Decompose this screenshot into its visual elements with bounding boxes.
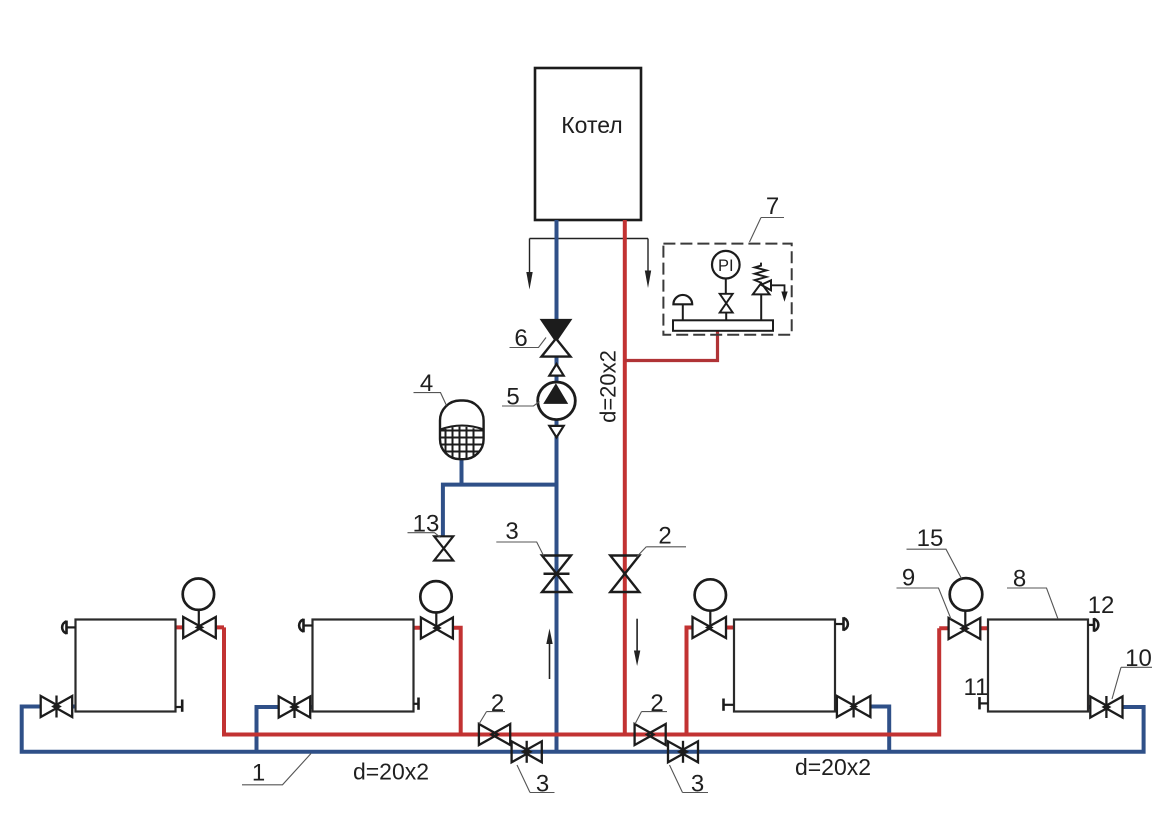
safety relief valve in box 7 bbox=[753, 263, 788, 321]
plug fitting 11 radiator4 (bottom left) bbox=[980, 697, 989, 709]
svg-text:Котел: Котел bbox=[561, 112, 622, 138]
flow arrow above pump bbox=[549, 364, 563, 376]
expansion tank 4 bbox=[440, 401, 484, 461]
label 15 bbox=[907, 525, 962, 579]
label 6 bbox=[510, 325, 547, 352]
thermostatic valve radiator1 bbox=[183, 610, 216, 639]
lockshield valve 10 on radiator4 bbox=[1090, 696, 1122, 718]
lockshield valve radiator2 bbox=[279, 696, 311, 718]
wire: red bottom manifold with end risers bbox=[224, 627, 939, 734]
valve 3 left on blue manifold bbox=[512, 741, 542, 763]
wire: blue return main from boiler down to bottom manifold bbox=[555, 220, 559, 752]
valve 2 right on red manifold bbox=[635, 724, 666, 745]
svg-text:2: 2 bbox=[491, 690, 504, 717]
wire: blue drop radiator2 bbox=[257, 707, 313, 752]
air vent fitting 12 radiator4 (top right) bbox=[1088, 618, 1098, 632]
label 3 top bbox=[496, 518, 543, 556]
plug fitting radiator3 (bottom left) bbox=[724, 699, 735, 711]
svg-text:1: 1 bbox=[252, 760, 265, 787]
lockshield valve radiator3 bbox=[837, 696, 871, 718]
radiator 3 bbox=[734, 620, 835, 712]
gauge cock (small vertical valve) in box 7 bbox=[720, 294, 733, 321]
wire: blue expansion-tank header bbox=[443, 485, 557, 537]
svg-text:10: 10 bbox=[1125, 645, 1152, 672]
wire: red drop radiator3 bbox=[687, 628, 735, 735]
lockshield valve radiator1 bbox=[41, 696, 72, 718]
label 2 bottom-right bbox=[635, 690, 667, 724]
pressure gauge PI bbox=[712, 251, 740, 294]
flow arrow down beside red main bbox=[634, 619, 640, 666]
manifold bar in box 7 bbox=[673, 320, 773, 331]
valve 3 on blue main (vertical) bbox=[542, 556, 571, 593]
label 2 bottom-left bbox=[479, 690, 505, 724]
thermostatic head radiator3 bbox=[695, 579, 726, 610]
label 2 top bbox=[637, 523, 686, 557]
air vent fitting radiator1 (top left) bbox=[62, 621, 75, 635]
svg-text:PI: PI bbox=[718, 257, 734, 275]
thermostatic valve radiator2 bbox=[421, 612, 453, 639]
valve 6 (check valve, filled top) bbox=[541, 320, 571, 357]
thermostatic valve radiator3 bbox=[693, 610, 727, 638]
plug fitting radiator1 (bottom right) bbox=[176, 700, 183, 712]
svg-text:2: 2 bbox=[650, 690, 663, 717]
svg-text:3: 3 bbox=[691, 771, 704, 798]
bracket with two down arrows under boiler bbox=[530, 239, 649, 275]
label 3 bottom-right bbox=[670, 765, 709, 798]
flow arrow up beside blue main bbox=[546, 629, 552, 680]
wire: red drop radiator2 bbox=[414, 628, 461, 735]
air vent fitting radiator2 (top left) bbox=[299, 619, 312, 633]
arrow down left of boiler bbox=[526, 272, 532, 290]
svg-text:3: 3 bbox=[536, 771, 549, 798]
wire: red stub radiator1 to elbow bbox=[176, 625, 225, 629]
label 3 bottom-left bbox=[517, 765, 555, 798]
label 8 bbox=[1007, 566, 1058, 620]
boiler Котел bbox=[535, 68, 641, 220]
thermostatic head radiator2 bbox=[420, 581, 451, 612]
wire: red stub radiator4 bbox=[939, 626, 988, 630]
radiator 4 bbox=[988, 620, 1088, 712]
label 13 bbox=[408, 511, 441, 538]
label 5 bbox=[502, 384, 540, 411]
thermostatic head radiator1 bbox=[183, 579, 214, 610]
valve 13 (drain, vertical) bbox=[434, 536, 453, 560]
wire: blue bottom manifold with radiator1 and radiator4 connections bbox=[22, 707, 1144, 752]
wire: red supply main from boiler down to bottom manifold bbox=[623, 220, 627, 733]
svg-text:d=20x2: d=20x2 bbox=[795, 754, 871, 780]
radiator 1 bbox=[76, 620, 176, 712]
label 4 bbox=[414, 370, 447, 406]
safety group box 7 (dashed) bbox=[663, 244, 791, 335]
thermostatic head 15 on radiator4 bbox=[950, 578, 983, 611]
svg-text:3: 3 bbox=[505, 518, 518, 545]
air vent (dome) in box 7 bbox=[673, 295, 692, 320]
thermostatic valve 9 on radiator4 bbox=[949, 611, 981, 640]
svg-text:15: 15 bbox=[917, 525, 944, 552]
pump U5 bbox=[538, 382, 576, 420]
label 7 bbox=[750, 193, 785, 242]
svg-text:d=20x2: d=20x2 bbox=[596, 350, 621, 423]
svg-text:2: 2 bbox=[658, 523, 671, 550]
svg-text:7: 7 bbox=[766, 193, 779, 220]
svg-text:12: 12 bbox=[1088, 592, 1115, 619]
svg-text:d=20x2: d=20x2 bbox=[353, 759, 429, 785]
air vent fitting radiator3 (top right) bbox=[835, 617, 848, 631]
wire: red branch to safety group bbox=[625, 330, 718, 361]
radiator 2 bbox=[313, 620, 414, 712]
valve 2 on red main (vertical) bbox=[610, 556, 639, 593]
valve 2 left on red manifold bbox=[479, 724, 510, 745]
svg-text:11: 11 bbox=[964, 674, 989, 701]
arrow down right of boiler bbox=[645, 271, 651, 289]
label 9 bbox=[897, 565, 952, 620]
label 1 bbox=[242, 754, 311, 787]
valve 3 right on blue manifold bbox=[668, 741, 698, 763]
wire: blue tank stem bbox=[460, 459, 464, 485]
label 10 bbox=[1112, 645, 1152, 699]
plug fitting radiator2 (bottom right) bbox=[414, 698, 419, 710]
flow arrow below pump bbox=[549, 426, 563, 438]
wire: blue drop radiator3 bbox=[835, 707, 889, 752]
